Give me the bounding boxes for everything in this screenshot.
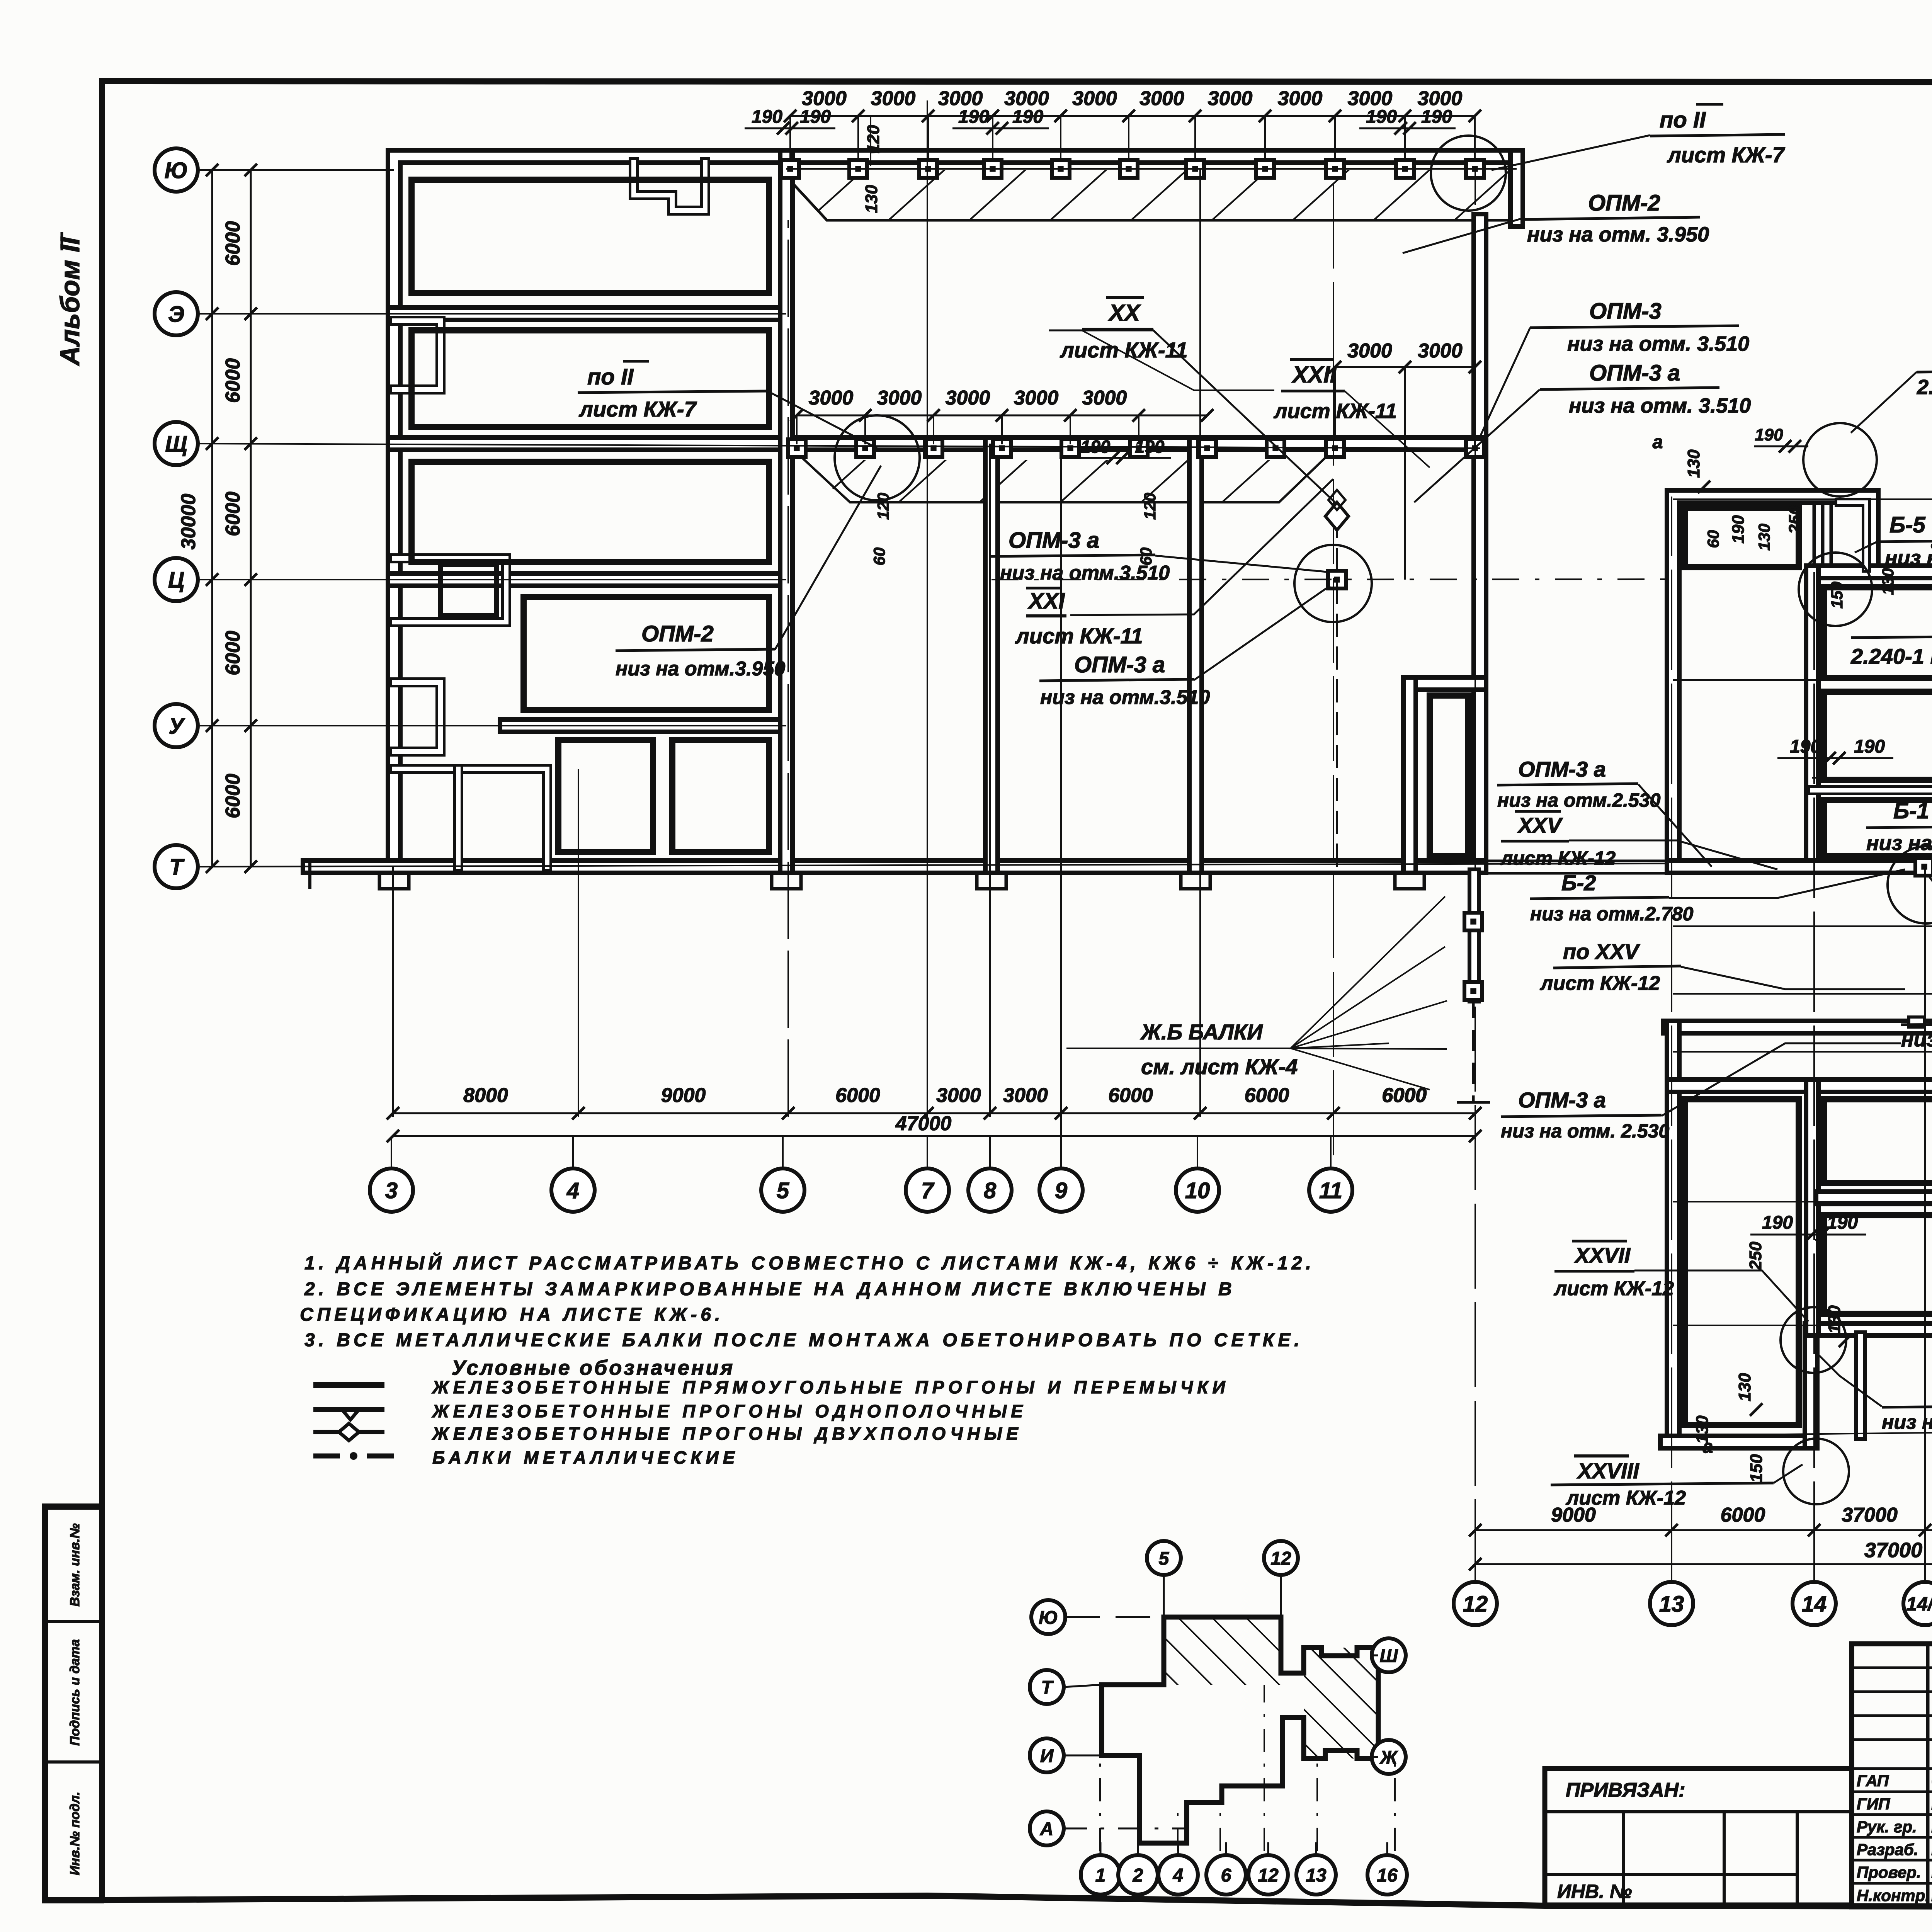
svg-text:И: И xyxy=(1040,1746,1054,1766)
axis line 9 xyxy=(1060,444,1062,1136)
key plan hatch A xyxy=(1164,1617,1281,1685)
svg-text:ЖЕЛЕЗОБЕТОННЫЕ ПРОГОНЫ ОДНОП: ЖЕЛЕЗОБЕТОННЫЕ ПРОГОНЫ ОДНОПОЛОЧНЫЕ xyxy=(432,1401,1027,1421)
Shch dim row 3000 x5 xyxy=(797,415,1207,417)
hatch band bottom edge xyxy=(783,173,1517,220)
svg-text:низ на отм. 3.950: низ на отм. 3.950 xyxy=(1527,223,1709,246)
notch in top wall xyxy=(634,162,705,211)
svg-text:ОПМ-3: ОПМ-3 xyxy=(1589,299,1662,324)
svg-text:Ш: Ш xyxy=(1380,1646,1398,1666)
svg-text:6000: 6000 xyxy=(222,774,244,818)
svg-text:190: 190 xyxy=(800,107,831,127)
svg-text:120: 120 xyxy=(864,125,883,153)
svg-text:190: 190 xyxy=(1729,515,1748,544)
leader fan xyxy=(1066,896,1447,1090)
svg-text:3000: 3000 xyxy=(1072,87,1117,110)
svg-text:190: 190 xyxy=(1012,107,1043,127)
top band right edge xyxy=(1508,156,1525,220)
svg-text:3000: 3000 xyxy=(1082,387,1127,409)
svg-text:150: 150 xyxy=(1747,1454,1766,1483)
hatch band under Shch wall xyxy=(796,460,1329,502)
svg-text:Н.контр.: Н.контр. xyxy=(1857,1886,1930,1905)
svg-text:низ на отм.2.450: низ на отм.2.450 xyxy=(1866,832,1932,855)
svg-text:ОПМ-3 а: ОПМ-3 а xyxy=(1074,652,1165,677)
svg-text:190: 190 xyxy=(1366,107,1397,127)
detail circle at beam x3460 xyxy=(1294,545,1372,622)
svg-text:3000: 3000 xyxy=(1347,340,1392,362)
svg-text:лист КЖ-11: лист КЖ-11 xyxy=(1273,400,1397,423)
svg-text:БАЛКИ МЕТАЛЛИЧЕСКИЕ: БАЛКИ МЕТАЛЛИЧЕСКИЕ xyxy=(432,1447,739,1468)
axis circle 12 xyxy=(1454,1582,1497,1625)
axis line Ts xyxy=(197,579,786,580)
svg-text:3: 3 xyxy=(385,1178,398,1203)
top dim row 3000 x10 xyxy=(790,115,1475,117)
svg-text:низ на отм.3.950: низ на отм.3.950 xyxy=(616,658,785,680)
outer wall right xyxy=(1471,220,1488,867)
svg-text:6000: 6000 xyxy=(1721,1504,1765,1526)
svg-text:3000: 3000 xyxy=(1418,340,1463,362)
svg-text:лист КЖ-12: лист КЖ-12 xyxy=(1539,972,1660,995)
beam rect room Ts-U xyxy=(524,597,769,710)
svg-text:6000: 6000 xyxy=(222,221,244,266)
wall axis P right xyxy=(1673,1077,1932,1094)
svg-text:120: 120 xyxy=(874,493,892,520)
axis circle Shch xyxy=(155,422,198,465)
svg-text:3000: 3000 xyxy=(877,387,922,409)
svg-text:30000: 30000 xyxy=(177,494,200,550)
wall axis T right xyxy=(1673,858,1932,875)
svg-text:Рук. гр.: Рук. гр. xyxy=(1857,1818,1917,1836)
svg-text:6000: 6000 xyxy=(1382,1084,1427,1107)
title block outer xyxy=(1852,1644,1932,1907)
svg-text:3. ВСЕ МЕТАЛЛИЧЕСКИЕ БАЛКИ: 3. ВСЕ МЕТАЛЛИЧЕСКИЕ БАЛКИ ПОСЛЕ МОНТАЖА… xyxy=(304,1330,1303,1350)
svg-text:6: 6 xyxy=(1221,1865,1231,1886)
svg-text:XXVII: XXVII xyxy=(1574,1243,1631,1267)
interior beam rooms part A upper xyxy=(1824,587,1932,678)
wall axis M right xyxy=(1822,1189,1932,1206)
svg-text:120: 120 xyxy=(1141,493,1159,520)
svg-text:6000: 6000 xyxy=(222,358,244,403)
svg-text:XXI: XXI xyxy=(1027,588,1065,614)
svg-text:Условные обозначения: Условные обозначения xyxy=(452,1356,735,1379)
svg-text:2: 2 xyxy=(1133,1865,1143,1886)
B-4 pier xyxy=(1854,1337,1867,1434)
svg-text:XX: XX xyxy=(1108,300,1141,326)
svg-text:низ на отм.3.510: низ на отм.3.510 xyxy=(1040,686,1210,709)
beam rect lower-left block xyxy=(1685,1099,1799,1425)
svg-text:3000: 3000 xyxy=(871,87,916,110)
beam rect right room xyxy=(1430,696,1468,856)
svg-text:4: 4 xyxy=(566,1178,579,1203)
svg-text:ОПМ-2: ОПМ-2 xyxy=(641,621,714,646)
svg-text:2. ВСЕ ЭЛЕМЕНТЫ ЗАМАРКИРОВАНН: 2. ВСЕ ЭЛЕМЕНТЫ ЗАМАРКИРОВАННЫЕ НА ДАННО… xyxy=(304,1279,1236,1299)
svg-text:190: 190 xyxy=(1762,1213,1793,1233)
svg-text:ОПМ-3 а: ОПМ-3 а xyxy=(1518,1088,1606,1112)
key plan hatch B xyxy=(1304,1648,1378,1759)
key plan circles xyxy=(1147,1541,1181,1575)
svg-text:Ю: Ю xyxy=(1039,1607,1058,1628)
svg-text:У: У xyxy=(168,714,185,739)
svg-text:Провер.: Провер. xyxy=(1857,1863,1921,1881)
svg-text:низ на отм.3.510: низ на отм.3.510 xyxy=(1000,562,1170,584)
axis line 3 xyxy=(392,867,394,1117)
svg-text:лист КЖ-7: лист КЖ-7 xyxy=(578,397,697,421)
axis circle 11 xyxy=(1309,1168,1352,1212)
support pads on axis YU xyxy=(781,160,799,178)
title block inner grid xyxy=(1926,1644,1930,1907)
top dim extension lines xyxy=(789,117,791,162)
leader XX xyxy=(1049,330,1335,502)
svg-text:3000: 3000 xyxy=(946,387,990,409)
beam rect room Shch-Ts xyxy=(412,462,769,562)
support pads on axis Shch xyxy=(788,439,806,457)
svg-text:Взам. инв.№: Взам. инв.№ xyxy=(68,1523,82,1606)
svg-text:низ на отм. 2.780: низ на отм. 2.780 xyxy=(1882,1411,1932,1434)
svg-text:47000: 47000 xyxy=(895,1112,952,1135)
wall axis E xyxy=(394,305,786,322)
svg-text:лист КЖ-11: лист КЖ-11 xyxy=(1015,624,1143,648)
interior wall col 10 xyxy=(1187,444,1204,867)
key plan dashed axes xyxy=(1099,1708,1101,1851)
axis line 10 xyxy=(1199,169,1201,1117)
svg-text:3000: 3000 xyxy=(1003,1084,1048,1107)
axis circle T xyxy=(155,845,198,888)
beam rect room U-T b xyxy=(672,740,769,852)
axis line 7 xyxy=(927,100,928,1117)
axis circle 13 xyxy=(1650,1582,1693,1625)
svg-text:лист КЖ-7: лист КЖ-7 xyxy=(1667,143,1786,167)
svg-text:60: 60 xyxy=(870,548,888,566)
svg-text:190: 190 xyxy=(1854,736,1885,757)
svg-text:130: 130 xyxy=(1735,1373,1754,1401)
axis line 8 xyxy=(989,444,991,1117)
svg-text:лист КЖ-11: лист КЖ-11 xyxy=(1060,338,1188,362)
axis circle 4 xyxy=(551,1168,595,1212)
axis circle 8 xyxy=(968,1168,1012,1212)
stair rooms bottom left xyxy=(394,769,547,867)
svg-text:ГИП: ГИП xyxy=(1857,1795,1890,1813)
svg-text:9000: 9000 xyxy=(661,1084,706,1107)
bottom dim row values xyxy=(393,1112,1475,1114)
dim 190 190 at col 14 xyxy=(1777,757,1893,759)
beam rect B-1 xyxy=(1824,800,1932,856)
svg-text:37000: 37000 xyxy=(1842,1504,1898,1526)
hatch band top xyxy=(786,170,1517,220)
axis circle 14 xyxy=(1793,1582,1836,1625)
svg-text:7: 7 xyxy=(921,1178,935,1203)
interior wall right room top xyxy=(1410,675,1480,692)
svg-text:1. ДАННЫЙ ЛИСТ РАССМАТРИВАТЬ С: 1. ДАННЫЙ ЛИСТ РАССМАТРИВАТЬ СОВМЕСТНО С… xyxy=(304,1252,1315,1274)
beam rect top-left section right bld xyxy=(1685,508,1799,567)
wall below T at col 12 xyxy=(1468,874,1481,997)
svg-text:8000: 8000 xyxy=(463,1084,508,1107)
svg-text:130: 130 xyxy=(1755,524,1773,551)
svg-text:ОПМ-3 а: ОПМ-3 а xyxy=(1589,361,1680,386)
interior vertical lower xyxy=(1804,1086,1821,1329)
right building bottom dims xyxy=(1475,1529,1932,1531)
title block annex left xyxy=(1545,1769,1852,1905)
svg-text:4: 4 xyxy=(1173,1865,1184,1886)
top dim 190 pairs xyxy=(745,128,835,129)
axis circle YU xyxy=(155,148,198,192)
svg-text:низ на отм. 2.530: низ на отм. 2.530 xyxy=(1501,1120,1669,1142)
axis lines right building xyxy=(1673,498,1932,500)
svg-text:Э: Э xyxy=(168,302,184,327)
svg-text:ГАП: ГАП xyxy=(1857,1772,1889,1790)
interior left vertical xyxy=(1804,572,1821,867)
svg-text:Б-2: Б-2 xyxy=(1561,871,1596,895)
right building outer walls part A xyxy=(1673,497,1872,867)
svg-text:Б-1: Б-1 xyxy=(1893,798,1929,823)
pilasters below T wall xyxy=(379,873,409,889)
legend row 4 - metal beams xyxy=(313,1454,340,1459)
bottom dim total 47000 xyxy=(393,1135,1475,1137)
axis line U xyxy=(197,725,786,726)
lower block outer xyxy=(1665,1027,1682,1442)
svg-text:37000: 37000 xyxy=(1864,1539,1922,1562)
svg-text:Инв.№ подл.: Инв.№ подл. xyxy=(68,1792,82,1876)
beam rect lower top room xyxy=(1824,1099,1932,1183)
detail circle B-5 xyxy=(1799,553,1872,626)
axis line 4 xyxy=(578,769,579,1117)
svg-text:XXV: XXV xyxy=(1517,813,1563,837)
vertical axis lines right building xyxy=(1671,497,1672,1582)
bottom wall left part xyxy=(1667,1434,1811,1451)
dim 190 190 lower block xyxy=(1750,1234,1866,1236)
T wall end hook xyxy=(308,860,311,889)
svg-text:5: 5 xyxy=(777,1178,789,1203)
axis circle 14/1 xyxy=(1903,1582,1932,1625)
beam rect room YU-E xyxy=(412,180,769,293)
detail circle 14-K xyxy=(1781,1307,1846,1373)
svg-text:250: 250 xyxy=(1786,505,1804,534)
axis circle 9 xyxy=(1039,1168,1083,1212)
svg-text:см. лист КЖ-4: см. лист КЖ-4 xyxy=(1141,1054,1298,1079)
axis circle 3 xyxy=(370,1168,413,1212)
svg-text:14/1: 14/1 xyxy=(1906,1593,1932,1615)
niche at Ts xyxy=(394,558,506,622)
svg-text:14: 14 xyxy=(1802,1592,1827,1617)
svg-text:130: 130 xyxy=(1684,449,1703,478)
beam rect lower mid room xyxy=(1824,1215,1932,1314)
svg-text:16: 16 xyxy=(1377,1865,1398,1886)
detail circle top junction right bld xyxy=(1803,423,1877,497)
outer wall left+top xyxy=(394,156,1517,867)
svg-text:Разраб.: Разраб. xyxy=(1857,1840,1918,1859)
svg-text:Ц: Ц xyxy=(168,568,184,593)
ZhB beams line below T xyxy=(1472,997,1475,1102)
interior wall right room left xyxy=(1401,684,1418,867)
axis line Shch xyxy=(197,444,1480,448)
svg-text:10: 10 xyxy=(1185,1178,1210,1203)
svg-text:ПРИВЯЗАН:: ПРИВЯЗАН: xyxy=(1566,1779,1685,1801)
svg-text:Ю: Ю xyxy=(165,158,188,183)
svg-text:ЖЕЛЕЗОБЕТОННЫЕ ПРЯМОУГОЛЬНЫЕ: ЖЕЛЕЗОБЕТОННЫЕ ПРЯМОУГОЛЬНЫЕ ПРОГОНЫ И П… xyxy=(432,1377,1230,1397)
svg-text:190: 190 xyxy=(1421,107,1452,127)
svg-text:190: 190 xyxy=(958,107,989,127)
svg-text:13: 13 xyxy=(1306,1865,1327,1886)
interior wall col 5 xyxy=(778,156,795,867)
beam rect room U-T a xyxy=(558,740,653,852)
mid bottom wall xyxy=(1822,1321,1932,1338)
detail circle 14-Zh xyxy=(1783,1439,1849,1504)
svg-text:СПЕЦИФИКАЦИЮ НА ЛИСТЕ КЖ-6: СПЕЦИФИКАЦИЮ НА ЛИСТЕ КЖ-6. xyxy=(300,1304,724,1325)
svg-text:1: 1 xyxy=(1095,1865,1106,1886)
svg-text:190: 190 xyxy=(1790,736,1821,757)
svg-text:13: 13 xyxy=(1659,1592,1684,1617)
svg-text:ОПМ-3 а: ОПМ-3 а xyxy=(1009,528,1099,553)
svg-text:Подпись и дата: Подпись и дата xyxy=(68,1639,82,1746)
svg-text:3000: 3000 xyxy=(809,387,854,409)
niche between E and Shch xyxy=(394,321,440,389)
axis circle U xyxy=(155,704,198,747)
svg-text:6000: 6000 xyxy=(835,1084,880,1107)
svg-text:190: 190 xyxy=(1827,1213,1858,1233)
detail circle OPM-3 support xyxy=(1888,846,1932,923)
svg-text:150: 150 xyxy=(1828,582,1846,609)
svg-text:а: а xyxy=(1653,432,1663,452)
wall above B-1 xyxy=(1812,785,1932,795)
svg-text:ОПМ-2: ОПМ-2 xyxy=(1588,190,1660,216)
wall axis U xyxy=(506,717,786,734)
legend row 1 - rect beams xyxy=(313,1382,384,1388)
axis line 11 xyxy=(1333,169,1334,1155)
left stamp box xyxy=(46,1507,102,1901)
svg-text:XXVIII: XXVIII xyxy=(1577,1459,1639,1483)
svg-text:2.240-1 вып. 2: 2.240-1 вып. 2 xyxy=(1917,376,1932,399)
svg-text:3000: 3000 xyxy=(1278,87,1323,110)
svg-text:низ на отм. 2.170: низ на отм. 2.170 xyxy=(1901,1028,1932,1051)
axis line 12 xyxy=(1475,169,1476,1584)
svg-text:190: 190 xyxy=(1135,437,1165,457)
axis line 5 xyxy=(787,220,789,1117)
legend row 2 - single flange xyxy=(313,1407,384,1412)
detail circle on Shch wall xyxy=(835,415,920,500)
left dim column 6000s xyxy=(211,170,213,867)
svg-text:ЖЕЛЕЗОБЕТОННЫЕ ПРОГОНЫ ДВУХП: ЖЕЛЕЗОБЕТОННЫЕ ПРОГОНЫ ДВУХПОЛОЧНЫЕ xyxy=(432,1423,1022,1444)
key plan outline xyxy=(1102,1617,1378,1843)
svg-text:3000: 3000 xyxy=(1139,87,1184,110)
axis circle 10 xyxy=(1176,1168,1219,1212)
wall axis T xyxy=(309,858,1480,875)
supports on T wall right xyxy=(1915,858,1932,876)
svg-text:6000: 6000 xyxy=(222,631,244,675)
wall axis Ts xyxy=(394,571,786,588)
svg-text:250: 250 xyxy=(1746,1242,1765,1270)
svg-text:190: 190 xyxy=(1755,425,1783,444)
svg-text:2.240-1 вып.2: 2.240-1 вып.2 xyxy=(1850,644,1932,668)
svg-text:6000: 6000 xyxy=(1108,1084,1153,1107)
svg-text:А: А xyxy=(1040,1819,1054,1839)
svg-text:Б-5 (3шт.): Б-5 (3шт.) xyxy=(1889,512,1932,537)
B-5 triple lines xyxy=(1814,502,1831,568)
interior wall col 8 xyxy=(983,444,1000,867)
svg-text:190: 190 xyxy=(752,107,782,127)
svg-text:3000: 3000 xyxy=(936,1084,981,1107)
svg-text:9: 9 xyxy=(1055,1178,1067,1203)
T wall stub between buildings xyxy=(1480,860,1673,862)
svg-text:6000: 6000 xyxy=(1245,1084,1289,1107)
svg-text:12: 12 xyxy=(1258,1865,1279,1886)
svg-text:130: 130 xyxy=(862,185,881,213)
svg-text:6000: 6000 xyxy=(222,492,244,536)
beam rect room E-Shch xyxy=(412,330,769,427)
axis line YU xyxy=(197,169,394,171)
svg-text:лист КЖ-12: лист КЖ-12 xyxy=(1553,1277,1674,1300)
legend row 3 - double flange xyxy=(313,1430,384,1434)
svg-text:Ж.Б БАЛКИ: Ж.Б БАЛКИ xyxy=(1140,1020,1263,1044)
svg-text:60: 60 xyxy=(1704,530,1722,548)
svg-text:по II: по II xyxy=(1660,107,1706,133)
step up xyxy=(1803,1329,1820,1442)
svg-text:лист КЖ-12: лист КЖ-12 xyxy=(1565,1487,1686,1509)
svg-text:190: 190 xyxy=(1081,437,1111,457)
svg-text:11: 11 xyxy=(1319,1178,1342,1203)
niche between U and T xyxy=(394,682,440,752)
wall axis Shch xyxy=(394,435,1480,452)
dim 3000 3000 center xyxy=(1335,366,1475,368)
svg-text:ОПМ-3 а: ОПМ-3 а xyxy=(1518,757,1606,781)
axis line T xyxy=(197,862,1932,867)
svg-text:лист КЖ-12: лист КЖ-12 xyxy=(1500,847,1616,869)
double-flange beam line x3460 xyxy=(1336,515,1338,867)
svg-text:3000: 3000 xyxy=(1208,87,1253,110)
axis line E xyxy=(197,313,786,315)
svg-text:Альбом II: Альбом II xyxy=(55,237,85,366)
svg-text:низ на отм.2.530: низ на отм.2.530 xyxy=(1497,789,1661,811)
axis circle 7 xyxy=(906,1168,949,1212)
svg-text:низ на отм. 3.510: низ на отм. 3.510 xyxy=(1567,332,1749,355)
axis circle Ts xyxy=(155,558,198,601)
svg-text:12: 12 xyxy=(1270,1548,1291,1569)
axis circle E xyxy=(155,292,198,335)
svg-text:по XXV: по XXV xyxy=(1563,939,1641,964)
svg-text:XXII: XXII xyxy=(1291,362,1337,388)
svg-text:по II: по II xyxy=(587,364,634,389)
svg-text:низ на отм. 3.510: низ на отм. 3.510 xyxy=(1569,394,1751,417)
svg-text:12: 12 xyxy=(1463,1592,1488,1617)
svg-text:5: 5 xyxy=(1159,1548,1170,1569)
mid top wall xyxy=(1812,563,1932,580)
svg-text:низ на отм. 2.580: низ на отм. 2.580 xyxy=(1885,546,1932,570)
axis circle 5 xyxy=(761,1168,804,1212)
detail circle on top band xyxy=(1431,136,1506,211)
svg-text:Т: Т xyxy=(1041,1677,1054,1698)
svg-text:8: 8 xyxy=(984,1178,997,1203)
svg-text:Т: Т xyxy=(169,855,185,880)
corridor bottom wall xyxy=(1669,1019,1932,1036)
svg-text:130: 130 xyxy=(1693,1415,1712,1444)
svg-text:Щ: Щ xyxy=(165,432,187,457)
svg-text:3000: 3000 xyxy=(1014,387,1059,409)
svg-text:ИНВ. №: ИНВ. № xyxy=(1557,1881,1632,1902)
niche at Ts inner beam xyxy=(440,565,497,615)
svg-text:130: 130 xyxy=(1879,568,1897,595)
svg-text:низ на отм.2.780: низ на отм.2.780 xyxy=(1530,903,1694,925)
B-5 room xyxy=(1839,502,1866,568)
